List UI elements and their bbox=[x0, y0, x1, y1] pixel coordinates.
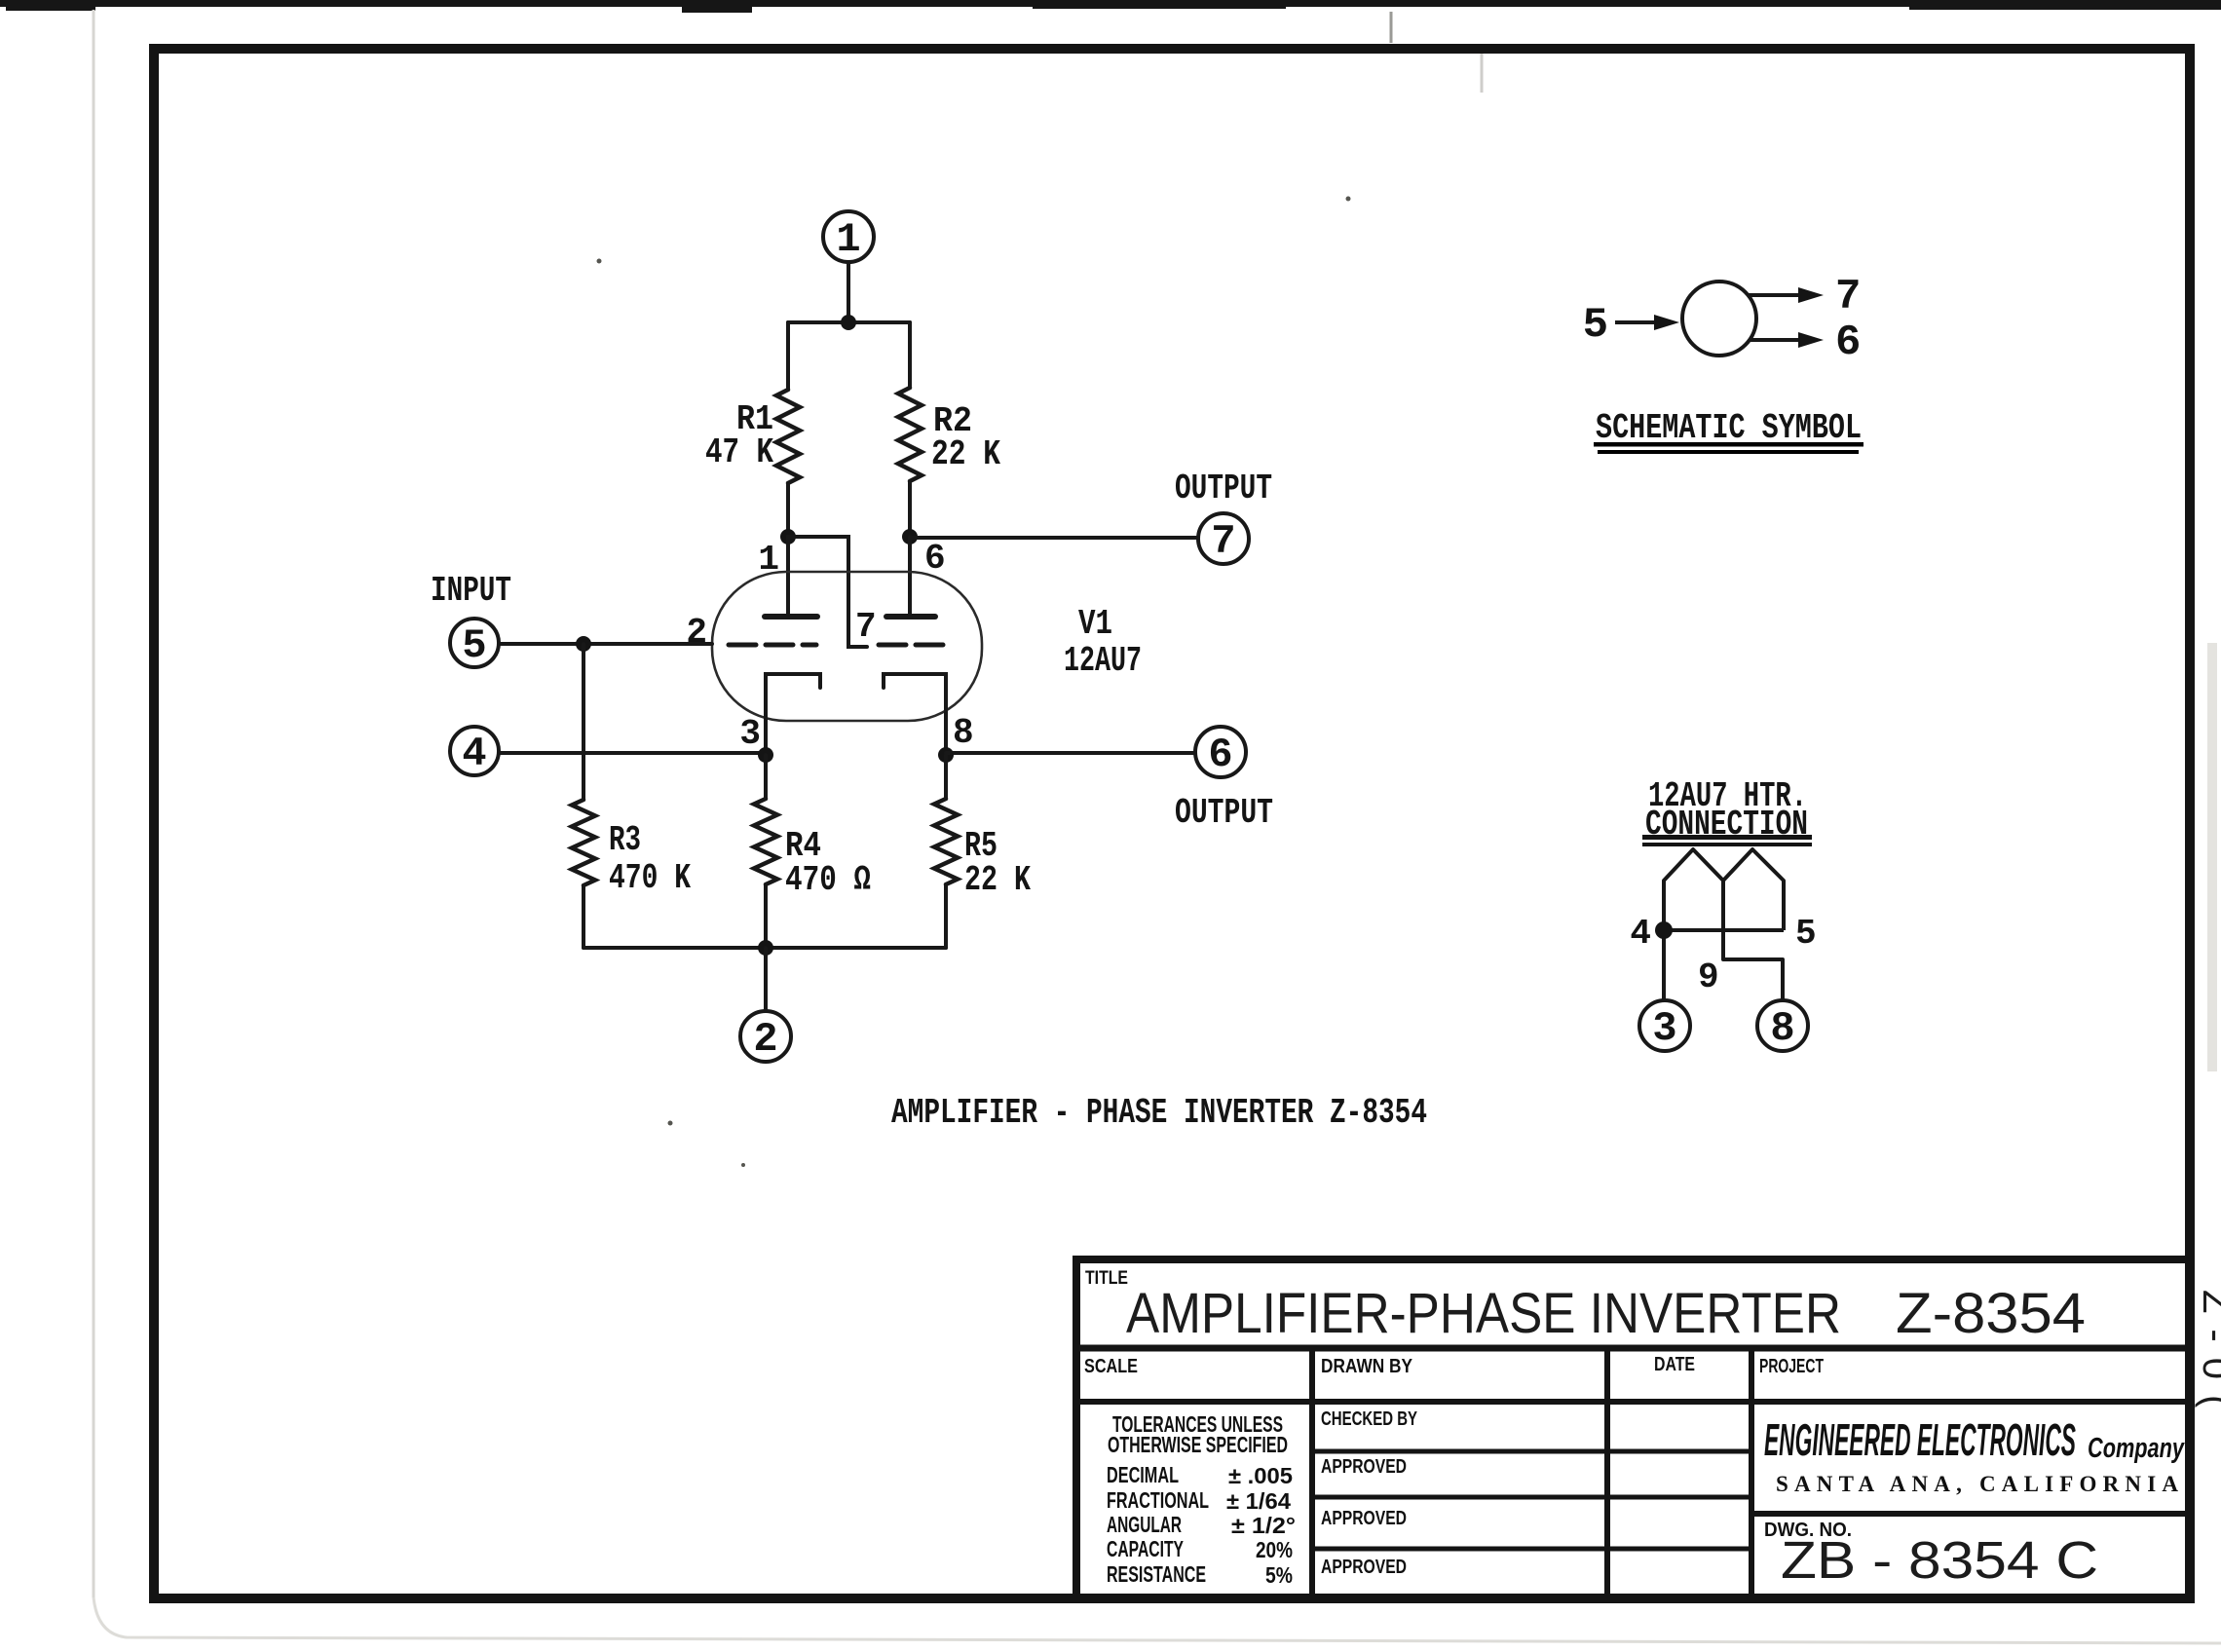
svg-text:ANGULAR: ANGULAR bbox=[1107, 1512, 1182, 1537]
wire symbol output 6 bbox=[1749, 338, 1805, 342]
svg-text:3: 3 bbox=[1652, 1005, 1676, 1052]
wire heater pin9 center tap bbox=[1723, 881, 1783, 1000]
title block row line under checked by bbox=[1312, 1449, 1751, 1454]
svg-text:OTHERWISE SPECIFIED: OTHERWISE SPECIFIED bbox=[1108, 1432, 1288, 1457]
heater filament 2 bbox=[1723, 849, 1784, 930]
title block line under company box bbox=[1751, 1511, 2188, 1517]
svg-text:AMPLIFIER-PHASE INVERTER: AMPLIFIER-PHASE INVERTER bbox=[1126, 1282, 1841, 1345]
title block row line under approved 1 bbox=[1312, 1495, 1751, 1500]
svg-text:12AU7: 12AU7 bbox=[1064, 641, 1142, 681]
wire to terminal 2 bbox=[764, 948, 768, 1011]
junction input node bbox=[576, 636, 591, 652]
wire terminal4 to cathode node bbox=[499, 751, 766, 755]
svg-text:6: 6 bbox=[1835, 319, 1861, 367]
node plate1 bbox=[780, 529, 796, 544]
svg-text:CAPACITY: CAPACITY bbox=[1107, 1536, 1184, 1561]
svg-text:OUTPUT: OUTPUT bbox=[1175, 469, 1272, 508]
svg-text:ENGINEERED ELECTRONICS: ENGINEERED ELECTRONICS bbox=[1764, 1414, 2076, 1465]
title block divider project bbox=[1749, 1348, 1754, 1598]
terminal 7 bbox=[1198, 513, 1249, 564]
wire plate2 to terminal 7 bbox=[910, 536, 1198, 540]
wire input bbox=[499, 642, 712, 646]
svg-text:6: 6 bbox=[1208, 732, 1232, 778]
title block row line under scale bbox=[1076, 1399, 2188, 1405]
title block divider scale bbox=[1309, 1348, 1315, 1598]
underline SCHEMATIC SYMBOL bbox=[1594, 442, 1863, 447]
tube V1 cathode 2 bbox=[884, 674, 946, 755]
svg-text:± 1/2°: ± 1/2° bbox=[1231, 1513, 1296, 1538]
svg-text:SCALE: SCALE bbox=[1084, 1356, 1138, 1377]
svg-text:AMPLIFIER - PHASE INVERTER Z-8: AMPLIFIER - PHASE INVERTER Z-8354 bbox=[891, 1093, 1427, 1133]
svg-text:2: 2 bbox=[686, 613, 707, 653]
wire bottom rail bbox=[583, 946, 946, 950]
svg-text:6: 6 bbox=[924, 539, 946, 579]
wire pin4 to terminal 3 bbox=[1662, 930, 1666, 1000]
schematic symbol circle bbox=[1682, 282, 1756, 356]
svg-text:470 K: 470 K bbox=[609, 858, 691, 898]
svg-text:V1: V1 bbox=[1078, 604, 1112, 644]
heater filament 1 bbox=[1664, 849, 1723, 930]
svg-text:APPROVED: APPROVED bbox=[1321, 1508, 1407, 1529]
svg-text:20%: 20% bbox=[1256, 1537, 1293, 1562]
wire cathode2 to terminal 6 bbox=[946, 751, 1195, 755]
wire pin6 plate lead bbox=[908, 537, 912, 615]
svg-text:OUTPUT: OUTPUT bbox=[1175, 793, 1273, 833]
svg-text:Z-8354: Z-8354 bbox=[1896, 1282, 2086, 1345]
svg-text:APPROVED: APPROVED bbox=[1321, 1557, 1407, 1578]
tube V1 plate 1 bbox=[765, 614, 817, 619]
junction heater pin 4 bbox=[1655, 921, 1673, 939]
resistor R5 bbox=[934, 755, 958, 948]
svg-text:CHECKED BY: CHECKED BY bbox=[1321, 1408, 1417, 1430]
svg-text:ZB - 8354 C: ZB - 8354 C bbox=[1781, 1531, 2098, 1590]
svg-text:FRACTIONAL: FRACTIONAL bbox=[1107, 1487, 1209, 1513]
svg-text:2: 2 bbox=[753, 1016, 777, 1063]
svg-text:7: 7 bbox=[855, 607, 877, 647]
terminal 1 bbox=[823, 211, 874, 262]
svg-text:470 Ω: 470 Ω bbox=[785, 860, 871, 900]
tube V1 envelope bbox=[712, 572, 982, 721]
terminal 4 bbox=[450, 727, 499, 775]
svg-text:47 K: 47 K bbox=[705, 432, 773, 472]
tube V1 cathode 1 bbox=[766, 674, 820, 755]
underline CONNECTION bbox=[1642, 835, 1812, 840]
svg-text:DATE: DATE bbox=[1654, 1354, 1695, 1375]
svg-text:9: 9 bbox=[1698, 957, 1719, 997]
terminal 8 bbox=[1757, 1000, 1808, 1051]
svg-text:RESISTANCE: RESISTANCE bbox=[1107, 1561, 1206, 1587]
svg-text:Z-0(: Z-0( bbox=[2195, 1290, 2221, 1423]
svg-text:4: 4 bbox=[1630, 914, 1651, 954]
junction top node bbox=[841, 315, 856, 330]
wire top rail bbox=[788, 320, 910, 324]
svg-text:5%: 5% bbox=[1265, 1562, 1293, 1588]
svg-text:22 K: 22 K bbox=[931, 434, 1000, 474]
svg-text:± .005: ± .005 bbox=[1228, 1463, 1293, 1488]
arrowhead symbol output 7 bbox=[1798, 287, 1824, 303]
svg-text:7: 7 bbox=[1211, 518, 1235, 565]
junction bottom node bbox=[758, 940, 773, 956]
wire heater bottom bbox=[1664, 928, 1784, 932]
terminal 5 bbox=[450, 619, 499, 667]
svg-text:PROJECT: PROJECT bbox=[1759, 1356, 1824, 1377]
svg-text:5: 5 bbox=[1583, 301, 1608, 350]
title block row line under approved 2 bbox=[1312, 1547, 1751, 1552]
svg-text:22 K: 22 K bbox=[964, 860, 1031, 900]
svg-text:DECIMAL: DECIMAL bbox=[1107, 1462, 1179, 1487]
svg-text:4: 4 bbox=[462, 731, 486, 777]
title block row line under title bbox=[1076, 1345, 2188, 1352]
svg-text:1: 1 bbox=[758, 540, 779, 580]
svg-text:8: 8 bbox=[1770, 1005, 1794, 1052]
svg-text:DRAWN BY: DRAWN BY bbox=[1321, 1356, 1413, 1377]
wire terminal1 to top node bbox=[847, 262, 850, 322]
tube V1 plate 2 bbox=[886, 614, 935, 619]
wire pin 7 grid2 bbox=[788, 537, 867, 647]
node cathode2 bbox=[938, 747, 954, 763]
terminal 6 bbox=[1195, 727, 1246, 777]
title block divider date bbox=[1604, 1348, 1610, 1598]
tube V1 grid dashes right bbox=[879, 643, 951, 648]
svg-text:3: 3 bbox=[739, 714, 761, 754]
node cathode1 bbox=[758, 747, 773, 763]
tube V1 grid dashes left bbox=[729, 643, 816, 648]
arrowhead symbol input bbox=[1654, 315, 1679, 330]
node plate2 bbox=[902, 529, 918, 544]
svg-text:7: 7 bbox=[1835, 273, 1861, 321]
arrowhead symbol output 6 bbox=[1798, 332, 1824, 348]
svg-text:5: 5 bbox=[462, 622, 486, 669]
terminal 3 bbox=[1639, 1000, 1690, 1051]
terminal 2 bbox=[740, 1011, 791, 1062]
title block outer box bbox=[1073, 1256, 2188, 1598]
resistor R3 bbox=[572, 644, 595, 948]
svg-text:± 1/64: ± 1/64 bbox=[1226, 1488, 1291, 1514]
svg-text:R3: R3 bbox=[609, 820, 641, 860]
svg-text:SCHEMATIC SYMBOL: SCHEMATIC SYMBOL bbox=[1596, 408, 1862, 448]
svg-text:TITLE: TITLE bbox=[1085, 1268, 1128, 1289]
resistor R1 bbox=[776, 322, 800, 537]
svg-text:1: 1 bbox=[836, 216, 860, 263]
resistor R2 bbox=[898, 322, 922, 537]
svg-text:Company: Company bbox=[2088, 1433, 2185, 1464]
svg-text:8: 8 bbox=[953, 713, 974, 753]
wire symbol output 7 bbox=[1749, 293, 1805, 297]
svg-text:INPUT: INPUT bbox=[431, 571, 511, 611]
wire pin1 plate lead bbox=[786, 537, 790, 615]
resistor R4 bbox=[754, 755, 777, 948]
svg-text:APPROVED: APPROVED bbox=[1321, 1456, 1407, 1478]
wire symbol input 5 bbox=[1615, 320, 1659, 324]
svg-text:5: 5 bbox=[1795, 914, 1817, 954]
